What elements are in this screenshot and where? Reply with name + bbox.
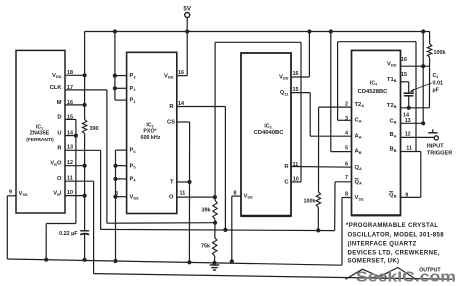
svg-text:VDD: VDD xyxy=(52,73,62,79)
svg-text:4: 4 xyxy=(345,130,348,136)
svg-text:16: 16 xyxy=(293,71,299,77)
svg-text:CB: CB xyxy=(390,118,397,124)
svg-text:OSCILLATOR, MODEL 301-858: OSCILLATOR, MODEL 301-858 xyxy=(348,232,445,238)
svg-text:CD4528BC: CD4528BC xyxy=(358,89,388,95)
svg-text:VDD: VDD xyxy=(164,73,174,79)
svg-text:14: 14 xyxy=(67,131,73,137)
svg-text:CLK: CLK xyxy=(50,85,63,91)
svg-text:AA: AA xyxy=(355,133,362,139)
svg-text:µF: µF xyxy=(433,88,440,94)
svg-text:P4: P4 xyxy=(130,177,137,183)
svg-text:P5: P5 xyxy=(130,163,137,169)
svg-text:P2: P2 xyxy=(130,86,137,92)
svg-text:D: D xyxy=(57,114,61,120)
svg-text:QB: QB xyxy=(389,193,397,199)
svg-text:11: 11 xyxy=(180,190,186,196)
svg-text:BB: BB xyxy=(390,147,397,153)
svg-text:16: 16 xyxy=(178,70,184,76)
svg-text:100k: 100k xyxy=(304,199,316,205)
svg-text:17: 17 xyxy=(67,85,73,91)
svg-text:ZN435E: ZN435E xyxy=(30,130,50,136)
svg-text:12: 12 xyxy=(67,160,73,166)
svg-text:Q11: Q11 xyxy=(280,90,289,96)
svg-text:VRI: VRI xyxy=(53,191,62,197)
svg-text:0.22 µF: 0.22 µF xyxy=(59,231,78,237)
svg-text:VSS: VSS xyxy=(244,194,253,200)
svg-text:15: 15 xyxy=(67,114,73,120)
svg-text:CS: CS xyxy=(167,119,175,125)
svg-text:18: 18 xyxy=(67,70,73,76)
svg-text:TRIGGER: TRIGGER xyxy=(427,150,452,156)
svg-text:3: 3 xyxy=(345,116,348,122)
svg-text:2: 2 xyxy=(345,102,348,108)
svg-text:BA: BA xyxy=(390,132,397,138)
svg-text:11: 11 xyxy=(293,162,299,168)
svg-text:12: 12 xyxy=(405,132,411,138)
svg-text:16: 16 xyxy=(401,57,407,63)
svg-text:13: 13 xyxy=(405,118,411,124)
svg-text:T2B: T2B xyxy=(387,103,397,109)
svg-text:39k: 39k xyxy=(202,208,211,214)
svg-text:(FERRANTI): (FERRANTI) xyxy=(26,137,54,143)
svg-text:PXO*: PXO* xyxy=(143,129,157,135)
svg-text:VDD: VDD xyxy=(279,74,289,80)
svg-text:CD4040BC: CD4040BC xyxy=(253,130,284,136)
svg-text:8: 8 xyxy=(115,191,118,197)
svg-text:16: 16 xyxy=(67,100,73,106)
svg-text:AB: AB xyxy=(355,149,362,155)
svg-text:P3: P3 xyxy=(130,73,137,79)
svg-text:9: 9 xyxy=(9,190,12,196)
svg-text:9: 9 xyxy=(405,192,408,198)
svg-text:O: O xyxy=(169,195,174,201)
svg-text:10: 10 xyxy=(67,190,73,196)
svg-text:0.01: 0.01 xyxy=(433,80,444,86)
svg-text:QA: QA xyxy=(355,180,363,186)
svg-text:SeekIC.com: SeekIC.com xyxy=(356,269,456,285)
svg-text:8: 8 xyxy=(345,192,348,198)
svg-text:6: 6 xyxy=(345,162,348,168)
svg-text:M: M xyxy=(57,100,62,106)
svg-text:P1: P1 xyxy=(130,98,137,104)
svg-text:VSS: VSS xyxy=(130,194,139,200)
svg-text:14: 14 xyxy=(178,101,184,107)
svg-text:15: 15 xyxy=(401,72,407,78)
svg-text:VRO: VRO xyxy=(50,161,62,167)
svg-text:390: 390 xyxy=(90,126,99,132)
svg-text:5: 5 xyxy=(345,146,348,152)
svg-text:15: 15 xyxy=(293,87,299,93)
svg-text:100k: 100k xyxy=(434,50,446,56)
svg-text:U: U xyxy=(57,131,61,137)
svg-text:7: 7 xyxy=(345,175,348,181)
svg-text:11: 11 xyxy=(406,146,412,152)
svg-text:OUTPUT: OUTPUT xyxy=(419,267,441,273)
svg-text:VDD: VDD xyxy=(387,61,397,67)
svg-text:O: O xyxy=(57,176,62,182)
svg-text:CA: CA xyxy=(355,118,362,124)
svg-text:*PROGRAMMABLE CRYSTAL: *PROGRAMMABLE CRYSTAL xyxy=(346,223,438,229)
svg-text:5V: 5V xyxy=(183,6,191,13)
svg-text:T2A: T2A xyxy=(355,102,365,108)
svg-text:11: 11 xyxy=(67,176,73,182)
svg-text:P6: P6 xyxy=(130,148,137,154)
svg-text:75k: 75k xyxy=(201,243,210,249)
svg-text:INPUT: INPUT xyxy=(427,144,444,150)
svg-text:600 kHz: 600 kHz xyxy=(141,135,161,141)
svg-text:VSS: VSS xyxy=(19,191,28,197)
svg-text:T: T xyxy=(170,180,174,186)
svg-text:13: 13 xyxy=(67,145,73,151)
svg-text:T1B: T1B xyxy=(387,77,397,83)
svg-text:SOMERSET, UK): SOMERSET, UK) xyxy=(348,259,400,265)
svg-text:(INTERFACE QUARTZ: (INTERFACE QUARTZ xyxy=(348,241,417,247)
svg-text:8: 8 xyxy=(234,191,237,197)
svg-text:QA: QA xyxy=(355,165,363,171)
svg-text:VSS: VSS xyxy=(355,195,364,201)
svg-text:DEVICES LTD, CREWKERNE,: DEVICES LTD, CREWKERNE, xyxy=(348,250,440,256)
svg-text:10: 10 xyxy=(293,177,299,183)
